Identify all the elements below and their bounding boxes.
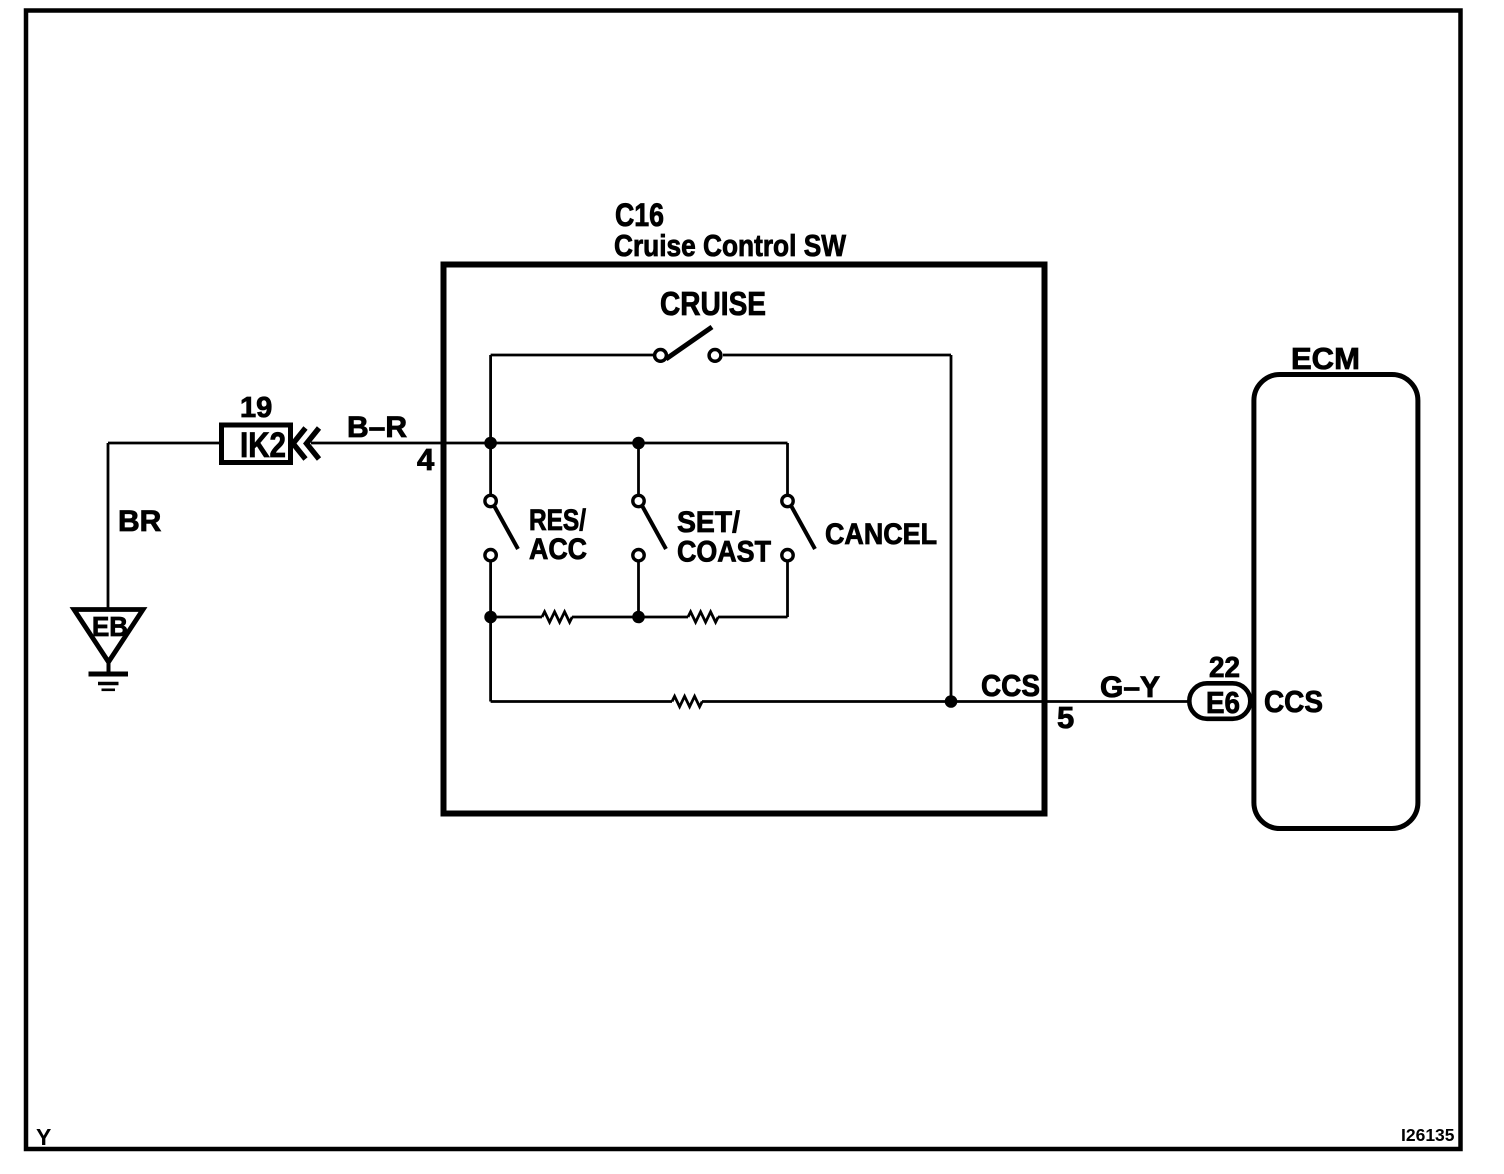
connector IK2 pin 19 bbox=[222, 392, 291, 465]
svg-text:COAST: COAST bbox=[677, 536, 771, 569]
ECM box bbox=[1254, 341, 1418, 829]
wire lower rail left segment bbox=[491, 700, 672, 703]
resistor R1 bbox=[542, 612, 572, 622]
connector chevrons bbox=[293, 428, 319, 459]
junction dot top rail at SET/COAST bbox=[632, 437, 645, 450]
wire middle rail right segment bbox=[718, 616, 788, 619]
wire B-R from chevron into switch box bbox=[311, 442, 788, 445]
svg-text:ECM: ECM bbox=[1291, 341, 1360, 376]
switch SET/COAST bbox=[633, 443, 771, 617]
svg-text:E6: E6 bbox=[1206, 685, 1240, 720]
wire CRUISE right horizontal bbox=[723, 354, 951, 357]
svg-text:CCS: CCS bbox=[981, 668, 1040, 703]
junction dot top rail at RES/ACC bbox=[484, 437, 497, 450]
ground EB bbox=[74, 610, 143, 690]
junction dot middle rail at RES/ACC bbox=[484, 611, 497, 624]
wire lower rail to ECM bbox=[702, 700, 1189, 703]
svg-text:I26135: I26135 bbox=[1401, 1125, 1455, 1145]
svg-text:CCS: CCS bbox=[1264, 684, 1323, 719]
svg-text:BR: BR bbox=[118, 505, 162, 538]
svg-text:B–R: B–R bbox=[347, 411, 407, 444]
resistor R3 bbox=[672, 696, 702, 706]
wire middle rail left segment bbox=[491, 616, 542, 619]
svg-text:Y: Y bbox=[36, 1124, 51, 1150]
svg-text:ACC: ACC bbox=[529, 533, 587, 566]
switch CRUISE bbox=[655, 285, 766, 361]
switch RES/ACC bbox=[485, 443, 587, 617]
svg-text:CANCEL: CANCEL bbox=[825, 518, 937, 551]
wire CRUISE branch left vertical bbox=[489, 355, 492, 443]
ground wire BR vertical bbox=[107, 443, 110, 611]
svg-text:EB: EB bbox=[92, 611, 128, 642]
svg-text:CRUISE: CRUISE bbox=[660, 285, 766, 322]
svg-text:G–Y: G–Y bbox=[1100, 671, 1160, 704]
wire CRUISE left horizontal bbox=[491, 354, 653, 357]
connector E6 pin 22 bbox=[1189, 652, 1250, 720]
wire ground to connector IK2 bbox=[108, 442, 219, 445]
switch CANCEL bbox=[782, 443, 937, 617]
svg-text:Cruise Control SW: Cruise Control SW bbox=[614, 228, 847, 263]
wire CRUISE right vertical down to CCS node bbox=[950, 355, 953, 702]
svg-text:SET/: SET/ bbox=[677, 506, 741, 539]
wire middle rail center segment bbox=[572, 616, 688, 619]
svg-text:5: 5 bbox=[1057, 700, 1074, 735]
svg-text:4: 4 bbox=[417, 442, 435, 477]
svg-text:19: 19 bbox=[240, 392, 272, 424]
junction dot middle rail at SET/COAST bbox=[632, 611, 645, 624]
box C16 Cruise Control SW bbox=[444, 197, 1045, 814]
svg-text:22: 22 bbox=[1209, 652, 1240, 684]
wire lower rail vertical from middle rail bbox=[489, 617, 492, 702]
svg-text:IK2: IK2 bbox=[240, 426, 286, 465]
resistor R2 bbox=[688, 612, 718, 622]
junction dot node CCS bbox=[945, 695, 958, 708]
